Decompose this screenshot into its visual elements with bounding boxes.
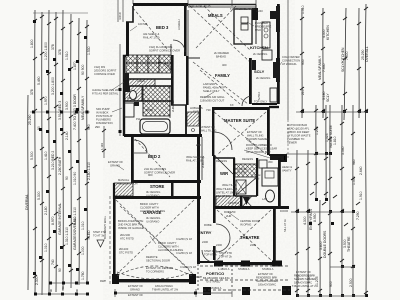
svg-text:STW/SD: STW/SD: [237, 167, 248, 171]
svg-text:RETURN AIR GRILL: RETURN AIR GRILL: [200, 95, 225, 99]
svg-text:3k CEILING: 3k CEILING: [146, 216, 160, 220]
svg-text:LINEN: LINEN: [137, 79, 145, 83]
svg-text:CORNICE OVER: CORNICE OVER: [94, 72, 115, 76]
svg-text:MASTER SUITE: MASTER SUITE: [224, 118, 255, 123]
svg-text:5.300: 5.300: [37, 191, 41, 200]
svg-text:RAIL AT 1750: RAIL AT 1750: [143, 36, 160, 40]
svg-text:42k SHELF &: 42k SHELF &: [143, 32, 159, 36]
svg-text:378: 378: [58, 49, 62, 55]
svg-text:GARAGE INTERNAL: GARAGE INTERNAL: [58, 203, 62, 235]
svg-text:RAIL AT 1750: RAIL AT 1750: [186, 159, 203, 163]
svg-text:RWP: RWP: [100, 279, 106, 283]
svg-text:BRICK CAVITY: BRICK CAVITY: [140, 202, 159, 206]
svg-text:OVERALL: OVERALL: [365, 46, 369, 62]
svg-text:290: 290: [95, 125, 100, 129]
svg-text:21Ω FH 2/DOORS: 21Ω FH 2/DOORS: [144, 167, 166, 171]
svg-text:CLOSER WITH: CLOSER WITH: [140, 206, 159, 210]
svg-text:HEAD @1100 AFL: HEAD @1100 AFL: [287, 127, 310, 131]
svg-text:1.510: 1.510: [65, 51, 69, 60]
svg-text:EXTENT OF: EXTENT OF: [108, 160, 123, 164]
svg-text:5.490: 5.490: [37, 76, 41, 85]
svg-text:TO AT 3k: TO AT 3k: [93, 234, 105, 238]
svg-text:90: 90: [75, 288, 79, 292]
svg-text:PLUMBERS: PLUMBERS: [96, 118, 111, 122]
svg-text:1.310 1.310: 1.310 1.310: [65, 227, 69, 245]
svg-text:STEP FTD: STEP FTD: [93, 230, 106, 234]
svg-text:GRANO: GRANO: [130, 288, 140, 292]
svg-text:378: 378: [30, 89, 34, 95]
svg-text:1.480/2 A: 1.480/2 A: [218, 267, 230, 271]
svg-text:WC: WC: [127, 96, 132, 100]
svg-text:180x/GY50/HC: 180x/GY50/HC: [258, 283, 276, 287]
svg-text:RENDERED BRK: RENDERED BRK: [294, 274, 316, 278]
svg-text:2.240: 2.240: [256, 9, 263, 13]
svg-text:MEALS/FAMILY: MEALS/FAMILY: [318, 55, 322, 80]
svg-text:2.640: 2.640: [359, 166, 363, 175]
svg-text:3 EQ FH 2/DOORS: 3 EQ FH 2/DOORS: [149, 45, 173, 49]
svg-text:BED 2: BED 2: [148, 154, 161, 159]
svg-text:AT 2000AFL: AT 2000AFL: [282, 62, 297, 66]
svg-text:730: 730: [206, 108, 211, 112]
svg-text:3.210 BED 2: 3.210 BED 2: [51, 151, 55, 170]
svg-text:3.510 BED 3: 3.510 BED 3: [58, 101, 62, 120]
svg-text:3.540: 3.540: [341, 146, 345, 155]
svg-text:2.300: 2.300: [35, 276, 39, 285]
svg-text:1.550: 1.550: [352, 176, 356, 185]
svg-text:5.310 1.310: 5.310 1.310: [73, 207, 77, 225]
svg-text:ATC P/STD: ATC P/STD: [120, 237, 134, 241]
svg-text:FW: FW: [136, 117, 141, 121]
svg-text:2k CEILING: 2k CEILING: [253, 52, 267, 56]
svg-text:SEWER: SEWER: [287, 141, 297, 145]
svg-text:2k FRAMED: 2k FRAMED: [214, 51, 229, 55]
svg-text:400: 400: [222, 63, 227, 67]
svg-text:980: 980: [352, 159, 356, 165]
svg-text:8.970: 8.970: [51, 216, 55, 225]
svg-text:900: 900: [148, 173, 153, 177]
svg-text:1.010: 1.010: [44, 243, 48, 252]
svg-text:SCLY/KITCHEN: SCLY/KITCHEN: [341, 47, 345, 72]
svg-text:STORE: STORE: [150, 184, 165, 189]
svg-text:W/ FLOOR WASTE: W/ FLOOR WASTE: [287, 134, 311, 138]
svg-text:1.203: 1.203: [315, 126, 319, 135]
svg-text:POSITION AT: POSITION AT: [96, 114, 113, 118]
svg-text:GRANO: GRANO: [110, 164, 120, 168]
svg-text:STAB/2 A: STAB/2 A: [210, 286, 222, 290]
svg-text:2.180 1.310: 2.180 1.310: [87, 162, 91, 180]
svg-text:KX: KX: [230, 103, 234, 107]
svg-text:900: 900: [329, 281, 333, 287]
svg-text:STAB/2 A: STAB/2 A: [262, 267, 274, 271]
svg-text:B/HEAD: B/HEAD: [216, 55, 226, 59]
svg-text:1190x590 CUT OUT: 1190x590 CUT OUT: [200, 99, 225, 103]
svg-text:WIR: WIR: [220, 171, 228, 176]
svg-text:3.0HIGH: 3.0HIGH: [177, 19, 181, 30]
svg-text:STAB/2 A: STAB/2 A: [238, 267, 250, 271]
svg-text:950: 950: [301, 59, 305, 65]
svg-text:EXTENT OF: EXTENT OF: [296, 270, 311, 274]
svg-text:2k CEILING: 2k CEILING: [256, 76, 270, 80]
svg-text:EXTENT OF: EXTENT OF: [128, 293, 143, 297]
svg-text:SHR: SHR: [193, 110, 199, 114]
svg-text:HEAD &: HEAD &: [282, 165, 292, 169]
svg-text:CLOSERS WITH: CLOSERS WITH: [158, 245, 179, 249]
svg-text:3k CEILING: 3k CEILING: [146, 190, 160, 194]
svg-text:REMOTE: REMOTE: [146, 255, 158, 259]
svg-text:450w TILED: 450w TILED: [222, 183, 237, 187]
svg-text:1.000: 1.000: [81, 246, 85, 255]
svg-text:4x400w SHELVES W/: 4x400w SHELVES W/: [92, 88, 118, 92]
svg-text:2.140: 2.140: [65, 131, 69, 140]
svg-text:EXTENT OF: EXTENT OF: [200, 125, 215, 129]
svg-text:WALL TILING: WALL TILING: [200, 129, 216, 133]
svg-text:SECTIONAL DOOR: SECTIONAL DOOR: [146, 259, 170, 263]
svg-text:1.810: 1.810: [333, 136, 337, 145]
svg-text:7.290: 7.290: [356, 211, 360, 220]
svg-text:ROBE/50: ROBE/50: [224, 210, 236, 214]
svg-text:T-BAR LINTEL AT 2%: T-BAR LINTEL AT 2%: [152, 288, 179, 292]
svg-text:TOP AT 2k: TOP AT 2k: [204, 253, 217, 257]
svg-text:THEATRE: THEATRE: [347, 236, 351, 252]
svg-text:90: 90: [58, 268, 62, 272]
svg-text:7.600: 7.600: [345, 51, 349, 60]
svg-text:INSIDE OF GARAGE: INSIDE OF GARAGE: [118, 226, 144, 230]
svg-text:1.780: 1.780: [81, 271, 85, 280]
svg-text:CONNECTION: CONNECTION: [282, 59, 300, 63]
svg-text:2.180: 2.180: [44, 206, 48, 215]
svg-text:T-BAR LEVEL AT 25: T-BAR LEVEL AT 25: [230, 7, 255, 11]
svg-text:4.010: 4.010: [118, 12, 122, 20]
svg-text:2Rx100: 2Rx100: [119, 247, 129, 251]
svg-text:STEP FTD: STEP FTD: [204, 249, 217, 253]
svg-text:SILL AT 19k: SILL AT 19k: [216, 194, 231, 198]
svg-text:THEATRE: THEATRE: [240, 235, 260, 240]
svg-text:RECESS: RECESS: [242, 157, 253, 161]
svg-text:FITS AS PER DETAIL: FITS AS PER DETAIL: [92, 92, 119, 96]
svg-text:2Rx/100: 2Rx/100: [120, 233, 131, 237]
svg-text:A/DM519: A/DM519: [228, 201, 240, 205]
svg-text:ROLLER DOOR: ROLLER DOOR: [118, 182, 138, 186]
svg-text:210: 210: [301, 89, 305, 95]
svg-text:BATH: BATH: [146, 108, 153, 112]
svg-text:378: 378: [51, 44, 55, 50]
svg-text:LINTEL AT 19k: LINTEL AT 19k: [216, 191, 235, 195]
svg-text:SILL AT 1k: SILL AT 1k: [283, 219, 287, 232]
svg-text:2HR: 2HR: [226, 214, 231, 218]
svg-text:BED 3: BED 3: [156, 25, 169, 30]
svg-text:180x/GY50/HC: 180x/GY50/HC: [294, 281, 312, 285]
svg-text:/U GRANO: /U GRANO: [146, 194, 159, 198]
svg-text:4.300: 4.300: [303, 216, 307, 225]
svg-text:UNO: UNO: [255, 28, 261, 32]
svg-text:EXTENT OF: EXTENT OF: [128, 284, 143, 288]
svg-text:VANITY: VANITY: [282, 169, 292, 173]
svg-text:900: 900: [87, 124, 91, 130]
svg-text:C/L250 (S 18: C/L250 (S 18: [180, 265, 196, 269]
svg-text:1.510: 1.510: [301, 5, 305, 14]
svg-text:RENDERED BRK: RENDERED BRK: [256, 276, 278, 280]
svg-text:1.410: 1.410: [44, 151, 48, 160]
svg-text:fv701F: fv701F: [257, 91, 261, 100]
svg-text:740: 740: [61, 286, 65, 291]
svg-text:PLUMBED TO: PLUMBED TO: [287, 137, 304, 141]
svg-text:SOFFIT CORNICE OVER: SOFFIT CORNICE OVER: [149, 49, 180, 53]
svg-text:450w TILED HOB: 450w TILED HOB: [216, 187, 238, 191]
svg-text:3.900: 3.900: [65, 101, 69, 110]
svg-text:KITCHEN: KITCHEN: [250, 45, 268, 50]
svg-text:7.630: 7.630: [322, 63, 326, 72]
svg-text:SHELF ONLY: SHELF ONLY: [203, 89, 220, 93]
svg-text:KEEP SERVICES CLEAR: KEEP SERVICES CLEAR: [246, 147, 277, 151]
svg-text:MEALS/FAMILY: MEALS/FAMILY: [81, 95, 85, 120]
svg-text:COLD WATER: COLD WATER: [282, 55, 300, 59]
svg-text:2HWD/15: 2HWD/15: [171, 100, 175, 112]
svg-text:/U GRANO: /U GRANO: [146, 220, 159, 224]
svg-text:DIVERMA: DIVERMA: [25, 194, 29, 210]
svg-text:TOP ONLY: TOP ONLY: [254, 100, 267, 104]
svg-text:W/BOX 400 DEEP: W/BOX 400 DEEP: [287, 130, 309, 134]
svg-text:OF OUTDOOR BAR: OF OUTDOOR BAR: [246, 150, 271, 154]
svg-text:PANEL 400w TOP: PANEL 400w TOP: [203, 86, 225, 90]
svg-text:90 900: 90 900: [81, 65, 85, 75]
svg-text:DOOR: DOOR: [280, 209, 288, 213]
svg-text:MEALS: MEALS: [208, 13, 223, 18]
svg-text:SHOWN SHADED: SHOWN SHADED: [294, 277, 316, 281]
svg-text:EXTENT OF: EXTENT OF: [258, 272, 273, 276]
svg-text:90: 90: [49, 288, 53, 292]
svg-text:2/DOORS SOFFIT: 2/DOORS SOFFIT: [94, 69, 117, 73]
svg-text:2400: 2400: [202, 240, 208, 244]
svg-text:T-BAR LINTEL AT 2%: T-BAR LINTEL AT 2%: [292, 284, 319, 288]
svg-text:STC P/STD: STC P/STD: [119, 251, 133, 255]
svg-text:8.950: 8.950: [313, 213, 317, 222]
svg-text:BRICK CAVITY: BRICK CAVITY: [158, 241, 177, 245]
svg-text:2.500: 2.500: [349, 278, 353, 287]
svg-text:1.193: 1.193: [100, 143, 104, 150]
svg-text:STEP FTD: STEP FTD: [219, 251, 232, 255]
svg-text:EXTENT OF: EXTENT OF: [247, 130, 262, 134]
svg-text:IN OPNG: IN OPNG: [240, 223, 251, 227]
svg-text:2.280 BATH: 2.280 BATH: [58, 156, 62, 175]
svg-text:BRICKLAYER NOTE:: BRICKLAYER NOTE:: [118, 219, 144, 223]
svg-text:FAMILY: FAMILY: [215, 73, 230, 78]
svg-text:C/L250 (S 18: C/L250 (S 18: [176, 237, 192, 241]
svg-text:1.200 1.800: 1.200 1.800: [44, 42, 48, 60]
svg-text:KITCHEN: KITCHEN: [326, 25, 330, 40]
svg-text:CENTRE DOOR: CENTRE DOOR: [240, 219, 260, 223]
svg-text:1.010 90: 1.010 90: [73, 172, 77, 185]
svg-text:LAV: LAV: [262, 197, 267, 201]
svg-text:RWP: RWP: [196, 275, 202, 279]
svg-text:1.010: 1.010: [81, 221, 85, 230]
svg-text:SHOWN SHADED: SHOWN SHADED: [247, 137, 269, 141]
svg-text:ROBE: ROBE: [204, 223, 212, 227]
svg-text:Ø50: Ø50: [196, 143, 202, 147]
svg-text:EXTENT OF RENDER: EXTENT OF RENDER: [146, 266, 173, 270]
svg-text:450: 450: [268, 160, 273, 164]
svg-text:TOP AT 2k: TOP AT 2k: [219, 255, 232, 259]
svg-text:DOUBLE DOORS: DOUBLE DOORS: [323, 230, 327, 258]
svg-text:180x/GY50/HC: 180x/GY50/HC: [155, 284, 173, 288]
svg-text:2400: 2400: [250, 243, 256, 247]
svg-text:TO CORNERS: TO CORNERS: [146, 270, 164, 274]
svg-text:SHOWN SHADED: SHOWN SHADED: [256, 279, 278, 283]
svg-text:BILLBOARD CEILING: BILLBOARD CEILING: [203, 276, 230, 280]
svg-text:LAW END: LAW END: [203, 82, 215, 86]
svg-text:1.800: 1.800: [30, 39, 34, 48]
svg-text:1.530: 1.530: [87, 46, 91, 55]
svg-text:AT 75R: AT 75R: [237, 171, 246, 175]
svg-text:ROOF PLUMBER TO: ROOF PLUMBER TO: [246, 143, 272, 147]
svg-text:WALL TILING: WALL TILING: [247, 134, 263, 138]
svg-text:2ND FACE BRK TO: 2ND FACE BRK TO: [118, 223, 142, 227]
svg-text:ENTRY: ENTRY: [198, 230, 212, 235]
svg-text:90: 90: [65, 176, 69, 180]
svg-text:25.290: 25.290: [28, 115, 32, 125]
svg-text:3 EQ FIN: 3 EQ FIN: [94, 65, 105, 69]
svg-text:MANUAL: MANUAL: [118, 178, 130, 182]
svg-text:FRIDGE/FRZ: FRIDGE/FRZ: [255, 25, 271, 29]
svg-text:/U STRAED: /U STRAED: [206, 280, 220, 284]
svg-text:IN W/BOX: IN W/BOX: [96, 111, 109, 115]
svg-text:T-BAR LEVEL AT 25: T-BAR LEVEL AT 25: [186, 4, 211, 8]
svg-text:OUTDOOR BAR: OUTDOOR BAR: [287, 123, 307, 127]
svg-text:100 MB: 100 MB: [138, 22, 147, 26]
svg-text:TILED: TILED: [87, 230, 91, 240]
svg-text:2400: 2400: [216, 243, 222, 247]
svg-text:1.910: 1.910: [359, 191, 363, 200]
svg-text:PORTICO: PORTICO: [206, 271, 224, 276]
svg-text:SPA PUMP: SPA PUMP: [96, 107, 110, 111]
svg-text:C/L250 (S 18: C/L250 (S 18: [176, 251, 192, 255]
svg-text:5.500: 5.500: [30, 151, 34, 160]
svg-text:HOBLESS: HOBLESS: [190, 106, 203, 110]
svg-text:SCLY: SCLY: [326, 93, 330, 102]
svg-text:ALCORE FLASHING: ALCORE FLASHING: [140, 209, 165, 213]
svg-text:900w: 900w: [254, 173, 260, 177]
svg-text:1.970: 1.970: [44, 96, 48, 105]
svg-text:740: 740: [51, 259, 55, 265]
svg-text:3.200 1.800: 3.200 1.800: [51, 77, 55, 95]
